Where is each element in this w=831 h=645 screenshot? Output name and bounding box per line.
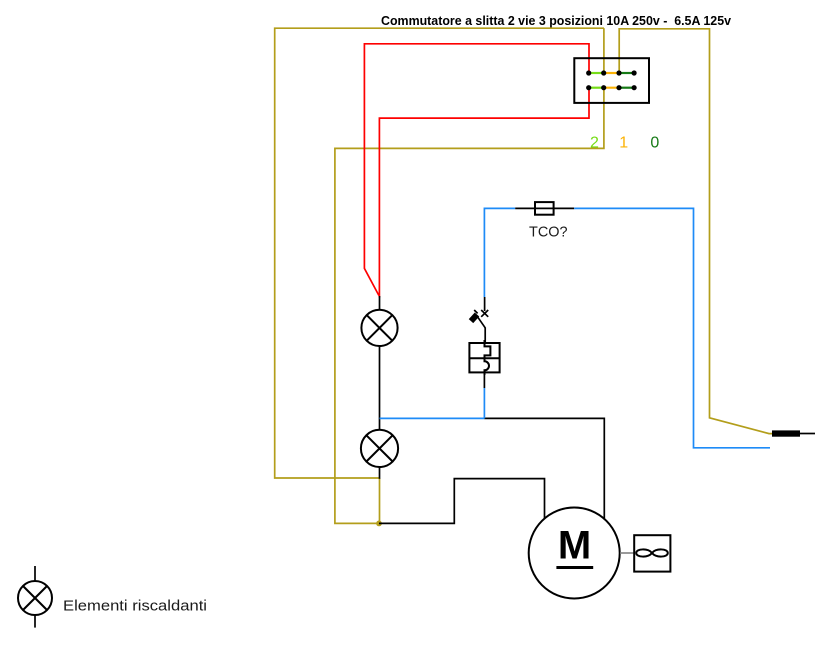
svg-text:Commutatore a slitta 2 vie 3 p: Commutatore a slitta 2 vie 3 posizioni 1… <box>381 14 731 28</box>
wire: blue from middle of heating elements right to thermal switch bottom node <box>380 417 485 419</box>
fan (box with infinity blades) <box>634 535 670 571</box>
wire: red from switch pin 1 row 2 down-left to heating elements <box>379 88 589 298</box>
slide switch body SW1 <box>574 58 649 103</box>
wire: black stub red junction to heating element R1 top <box>379 296 381 310</box>
shaft link motor to fan <box>620 552 634 554</box>
fuse TCO (rectangle) <box>535 202 554 215</box>
switch link row1 orange (position 1) <box>604 72 619 74</box>
legend heating element symbol <box>18 566 52 628</box>
svg-text:TCO?: TCO? <box>529 223 568 240</box>
heating element R1 (circle with X) <box>361 310 397 346</box>
switch link row2 orange <box>604 87 621 89</box>
wire: black below overload box <box>483 372 485 388</box>
wire: olive from top rail down into switch pin 2 row 1 <box>603 28 605 73</box>
wire: olive segment below lower heating element to junction node <box>379 478 381 523</box>
thermal switch bimetal pad (filled) <box>469 312 479 323</box>
motor M1 <box>529 508 620 599</box>
svg-text:1: 1 <box>619 134 628 151</box>
mains plug (thick black bar with cord stub) <box>772 430 800 436</box>
thermal overload box with heater element S1 <box>469 340 499 375</box>
thermal switch contact (bimetal lever with x contact) <box>474 297 488 344</box>
wire: black through TCO fuse <box>515 207 574 209</box>
switch link row2 dark green <box>619 87 634 89</box>
svg-text:Elementi riscaldanti: Elementi riscaldanti <box>63 598 207 615</box>
wire: blue thermal switch top lead up to TCO rail <box>484 208 515 297</box>
wire: blue from TCO right along top, down right side to below plug <box>574 208 770 447</box>
wire: black between heating elements <box>379 346 381 430</box>
wire: black stub below heating element R2 <box>379 467 381 479</box>
wire: olive from switch pin 3 row 1 up and right to mains plug <box>619 29 772 434</box>
switch link row2 green <box>589 87 604 89</box>
wire: blue thermal switch bottom lead <box>483 388 485 418</box>
switch link row1 dark green (position 0) <box>619 72 634 74</box>
svg-text:M: M <box>558 523 591 567</box>
heating element R2 (circle with X) <box>361 430 398 467</box>
switch pins (8 dots) <box>586 70 637 90</box>
svg-text:0: 0 <box>650 134 659 151</box>
junction node: olive dot <box>376 521 382 527</box>
wire: olive mains feed left (top rail to lower heating element bottom) <box>275 28 604 478</box>
wire: olive switch output row 2 pin 2 down-left to junction node <box>335 88 604 523</box>
wire: black from node to motor top right lead <box>484 418 604 519</box>
wire: black motor left lead from junction node <box>379 479 545 524</box>
wire: red from switch pin 1 row 1 leftward and down to heating elements <box>364 44 589 296</box>
svg-text:2: 2 <box>590 134 599 151</box>
switch link row1 green (position 2) <box>589 72 604 74</box>
